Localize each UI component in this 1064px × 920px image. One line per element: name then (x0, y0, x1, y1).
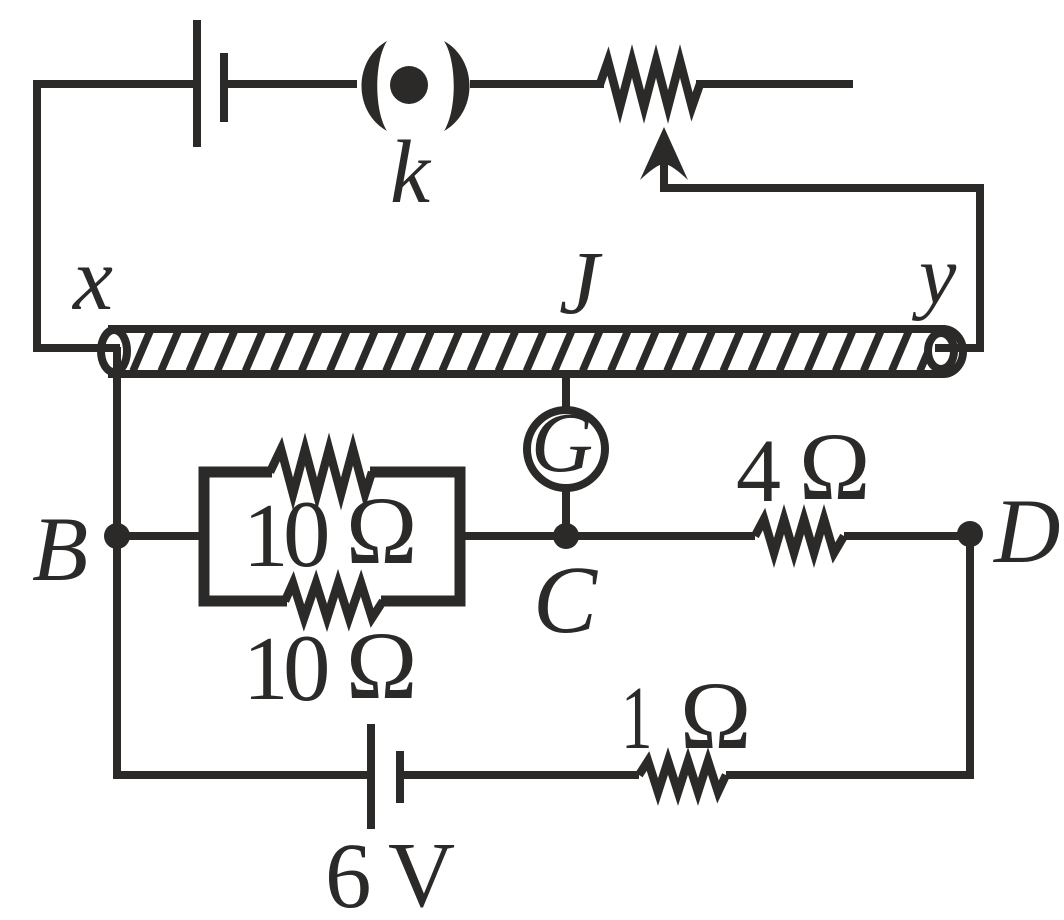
resistor 4 ohm zigzag (755, 519, 844, 553)
svg-text:J: J (559, 234, 603, 333)
wire stub y ring to right vertical (935, 344, 980, 352)
rheostat wiper arrowhead (640, 127, 688, 180)
svg-text:Ω: Ω (680, 662, 751, 769)
svg-text:D: D (992, 480, 1060, 582)
wire box to node C to 4 ohm (460, 532, 755, 540)
svg-text:0: 0 (283, 615, 331, 721)
node C dot (553, 523, 579, 549)
potentiometer bar bottom line (108, 370, 945, 378)
wire 4 ohm to node D (844, 532, 970, 540)
wire key to rheostat (470, 80, 604, 88)
svg-text:1: 1 (621, 668, 653, 768)
battery k cell short plate (220, 53, 228, 122)
svg-text:V: V (388, 824, 455, 920)
svg-text:C: C (533, 546, 598, 653)
rheostat resistor zigzag (600, 61, 700, 107)
resistor 10 ohm top zigzag (270, 449, 372, 494)
resistor 1 ohm zigzag (639, 761, 726, 792)
svg-text:G: G (531, 394, 593, 490)
wire left vertical through B to bottom (117, 347, 367, 775)
bar hatching (133, 329, 938, 371)
wire 1 ohm to bottom right corner and up to D (726, 536, 970, 775)
node B dot (104, 523, 130, 549)
wire node B to box (117, 532, 204, 540)
svg-text:x: x (71, 230, 113, 329)
galvanometer G circle (527, 410, 605, 488)
bar right end ring at y (928, 333, 954, 369)
svg-text:y: y (911, 229, 957, 322)
battery 6V short plate (396, 751, 404, 803)
parallel box right part (370, 472, 460, 601)
battery 6V long plate (367, 724, 375, 829)
battery k cell long plate (193, 20, 201, 147)
key k contact dot (390, 66, 428, 104)
svg-text:Ω: Ω (346, 477, 417, 584)
wire jockey J down to galvanometer (562, 374, 570, 410)
bar left end ring at x (101, 330, 127, 372)
bar right end cap (943, 329, 963, 374)
wire rheostat right dead-end (696, 80, 853, 88)
wire top left corner (37, 84, 193, 348)
svg-text:0: 0 (283, 481, 331, 587)
rheostat wiper shaft (664, 158, 980, 352)
svg-text:6: 6 (325, 825, 372, 920)
key k right crescent (444, 41, 470, 131)
wire galvanometer to node C (562, 488, 570, 536)
wire battery to key k (224, 80, 357, 88)
svg-text:4: 4 (736, 422, 781, 521)
svg-text:k: k (390, 123, 432, 222)
svg-text:Ω: Ω (799, 413, 870, 520)
wire stub into x ring (98, 344, 120, 352)
svg-text:1: 1 (243, 618, 289, 719)
node D dot (957, 521, 983, 547)
wire battery to 1 ohm (400, 771, 639, 779)
svg-text:B: B (32, 498, 88, 600)
key k left crescent (362, 41, 388, 131)
svg-text:Ω: Ω (346, 612, 417, 719)
resistor 10 ohm bottom zigzag (285, 583, 383, 618)
svg-text:1: 1 (243, 485, 289, 586)
parallel box left part (204, 472, 287, 601)
potentiometer bar top line (108, 325, 945, 333)
